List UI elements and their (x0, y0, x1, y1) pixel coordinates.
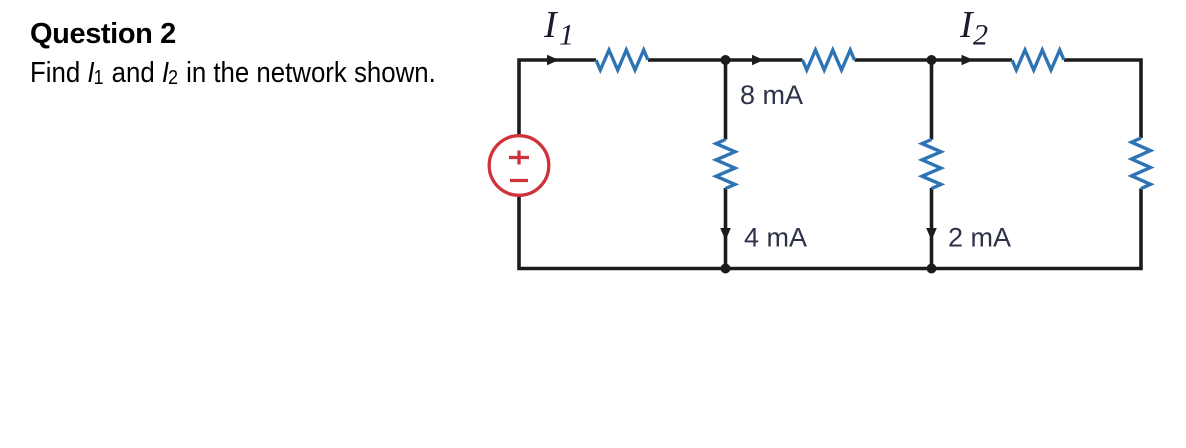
svg-text:1: 1 (559, 19, 574, 52)
svg-text:2 mA: 2 mA (948, 223, 1011, 253)
svg-text:4 mA: 4 mA (744, 223, 807, 253)
svg-text:8 mA: 8 mA (740, 80, 803, 110)
svg-text:2: 2 (973, 19, 988, 52)
svg-text:I: I (543, 4, 559, 46)
